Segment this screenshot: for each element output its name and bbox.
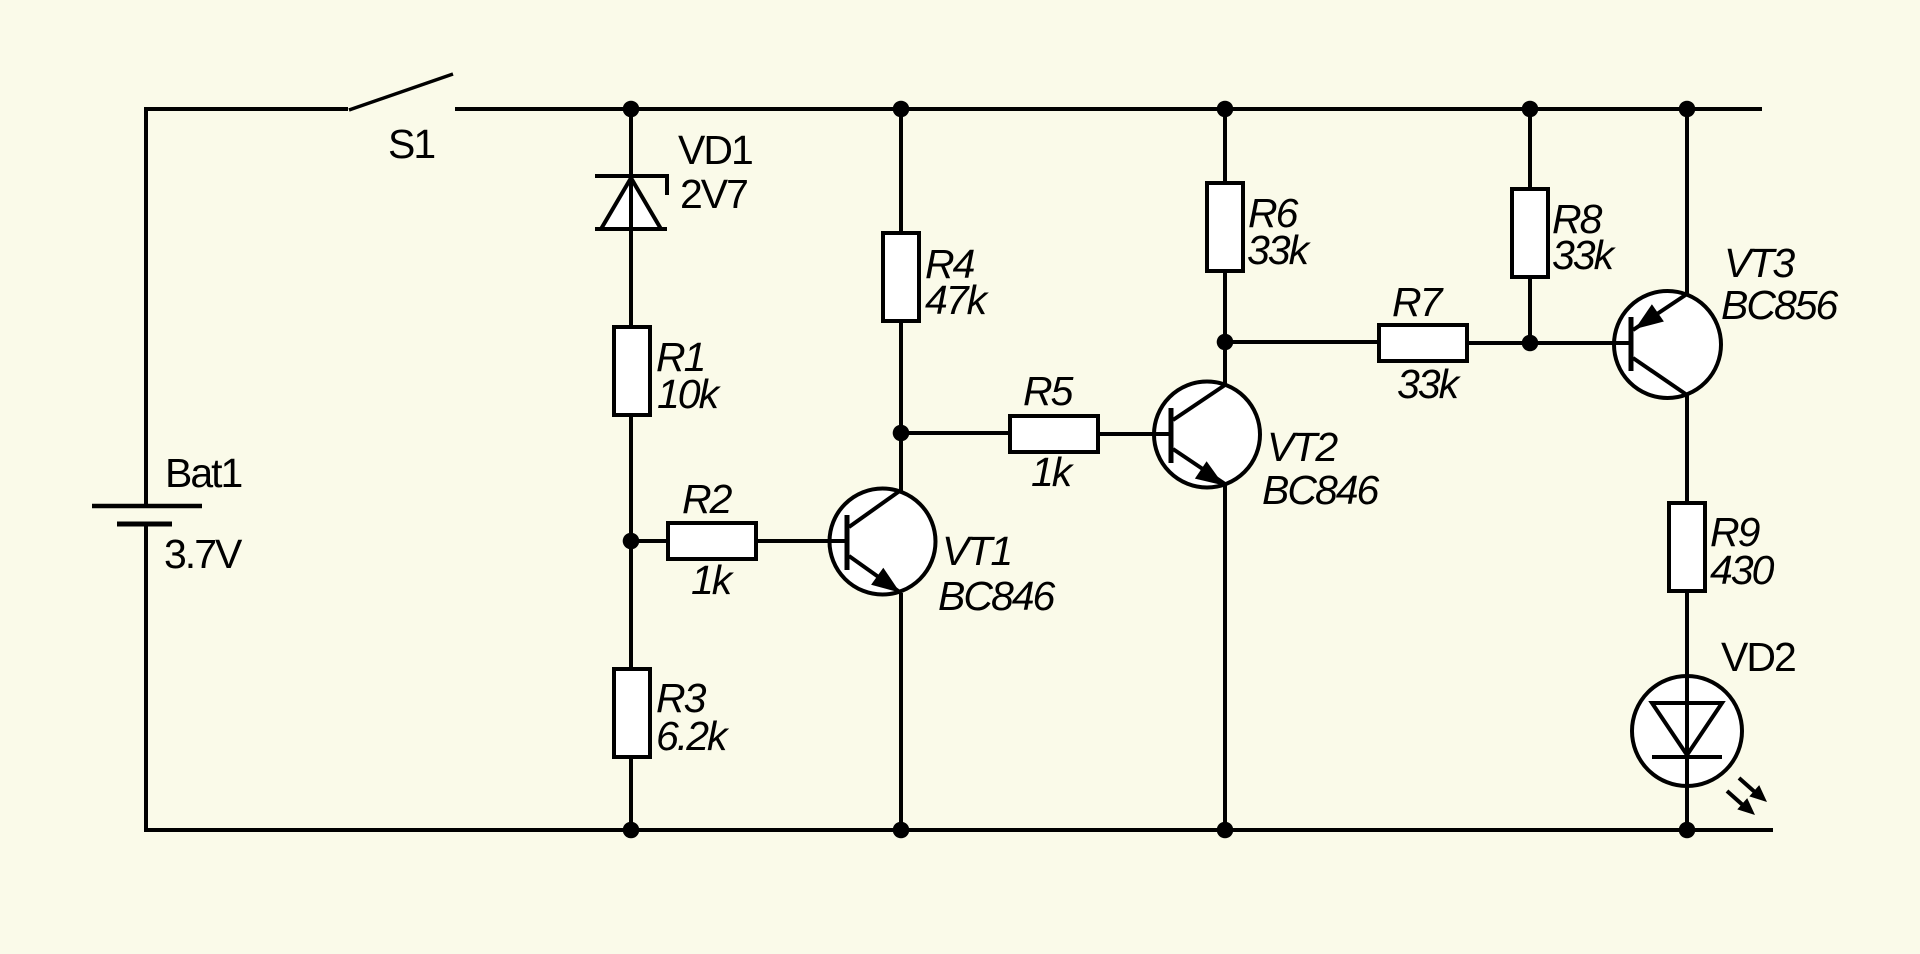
- VT1 emitter arrow: [871, 568, 900, 593]
- zener diode VD1 anode line: [595, 227, 667, 231]
- VD2 triangle: [1652, 703, 1722, 755]
- VT2 base bar: [1169, 408, 1174, 463]
- battery Bat1 plate long: [92, 504, 202, 509]
- wire VT3 collector to R9: [1685, 395, 1689, 505]
- wire R6 column top: [1223, 109, 1227, 185]
- transistor VT2: [1096, 382, 1260, 488]
- wire collector node to VT1: [899, 433, 903, 492]
- svg-text:S1: S1: [388, 121, 434, 167]
- svg-text:VT2: VT2: [1267, 424, 1338, 470]
- svg-text:R7: R7: [1392, 279, 1445, 325]
- wire VT3 column top: [1685, 109, 1689, 294]
- wire R1 to R2 node to R3: [629, 413, 633, 671]
- wire R4 to collector node: [899, 319, 903, 433]
- wire left rail upper: [144, 107, 148, 504]
- svg-text:3.7V: 3.7V: [164, 531, 243, 577]
- svg-text:33k: 33k: [1247, 227, 1312, 273]
- VD2 light arrow 1 shaft: [1739, 778, 1757, 794]
- resistor R8: [1512, 189, 1548, 277]
- transistor VT1: [758, 489, 936, 595]
- wire node to R5: [901, 431, 1012, 435]
- wire VT1 base lead: [758, 539, 847, 543]
- wire zener to R1: [629, 229, 633, 329]
- resistor R2: [668, 523, 756, 559]
- node bottom rail VT1: [893, 822, 910, 839]
- wire R6 to node to VT2 collector: [1223, 269, 1227, 385]
- VT2 emitter lead: [1173, 449, 1225, 484]
- VT3 emitter lead: [1633, 294, 1687, 330]
- wire bottom rail: [146, 828, 1773, 832]
- node R8 base VT3: [1522, 335, 1539, 352]
- resistor R9: [1669, 503, 1705, 591]
- wire VT3 base lead: [1467, 341, 1631, 345]
- VD2 light arrow 2 head: [1737, 798, 1755, 815]
- svg-text:R2: R2: [682, 476, 733, 522]
- VT1 base bar: [845, 515, 850, 570]
- node bottom rail VT2: [1217, 822, 1234, 839]
- svg-text:Bat1: Bat1: [165, 450, 242, 496]
- node top rail VT3: [1679, 101, 1696, 118]
- svg-text:R5: R5: [1023, 368, 1074, 414]
- VD2 light arrow 1 head: [1749, 785, 1767, 802]
- VD2 cathode bar: [1652, 755, 1722, 759]
- wire node to R7: [1225, 340, 1381, 344]
- resistor R7: [1379, 325, 1467, 361]
- svg-text:VT1: VT1: [942, 528, 1011, 574]
- svg-text:1k: 1k: [1031, 449, 1075, 495]
- svg-text:VD1: VD1: [678, 127, 752, 173]
- node R2 base divider: [623, 533, 640, 550]
- resistor R5: [1010, 416, 1098, 452]
- wire VT2 base lead: [1096, 432, 1171, 436]
- resistor R3: [614, 669, 650, 757]
- svg-text:430: 430: [1710, 547, 1775, 593]
- VT1 collector lead: [849, 490, 901, 527]
- VT2 collector lead: [1173, 385, 1225, 420]
- switch S1: [349, 74, 453, 110]
- svg-text:VD2: VD2: [1721, 634, 1795, 680]
- VT2 emitter arrow: [1195, 461, 1224, 485]
- wire through VD1 triangle: [629, 178, 633, 231]
- svg-text:47k: 47k: [925, 277, 990, 323]
- node top rail VD1: [623, 101, 640, 118]
- VD2 light arrow 2 shaft: [1727, 791, 1745, 807]
- svg-text:BC846: BC846: [1262, 467, 1380, 513]
- node R6 collector R7: [1217, 334, 1234, 351]
- svg-text:2V7: 2V7: [680, 171, 747, 217]
- VT3 emitter arrow: [1635, 304, 1664, 329]
- node top rail R8: [1522, 101, 1539, 118]
- node R4 collector R5: [893, 425, 910, 442]
- resistor R1: [614, 327, 650, 415]
- resistor R6: [1207, 183, 1243, 271]
- wire R4 column top: [899, 109, 903, 235]
- transistor VT3: [1467, 291, 1721, 398]
- node bottom rail R3: [623, 822, 640, 839]
- wire left rail lower: [144, 526, 148, 832]
- wire R2 node to R2: [631, 539, 672, 543]
- wire R8 column top: [1528, 109, 1532, 191]
- wire R8 bottom to R7 wire: [1528, 275, 1532, 343]
- svg-text:BC856: BC856: [1721, 282, 1839, 328]
- svg-text:6.2k: 6.2k: [656, 713, 730, 759]
- svg-text:1k: 1k: [691, 557, 735, 603]
- svg-text:BC846: BC846: [938, 573, 1056, 619]
- node top rail R4: [893, 101, 910, 118]
- node bottom rail VD2: [1679, 822, 1696, 839]
- VT1 emitter lead: [849, 556, 901, 593]
- zener diode VD1 cathode bar: [595, 176, 667, 195]
- zener diode VD1 triangle: [601, 178, 661, 229]
- VT3 base bar: [1629, 317, 1634, 371]
- svg-text:10k: 10k: [657, 371, 722, 417]
- VT3 collector lead: [1633, 358, 1687, 395]
- svg-text:33k: 33k: [1397, 361, 1462, 407]
- resistor R4: [883, 233, 919, 321]
- wire top rail right segment: [455, 107, 1762, 111]
- wire R9 to VD2 to bottom rail: [1685, 591, 1689, 830]
- wire top rail left segment: [146, 107, 348, 111]
- svg-text:33k: 33k: [1552, 232, 1617, 278]
- LED VD2: [1632, 591, 1767, 830]
- wire VT1 emitter to bottom rail: [899, 593, 903, 830]
- svg-text:VT3: VT3: [1724, 240, 1795, 286]
- wire VD1 column top: [629, 109, 633, 176]
- node top rail R6: [1217, 101, 1234, 118]
- wire VT2 emitter to bottom rail: [1223, 484, 1227, 830]
- wire R3 to bottom rail: [629, 755, 633, 830]
- battery Bat1 plate short: [117, 522, 172, 527]
